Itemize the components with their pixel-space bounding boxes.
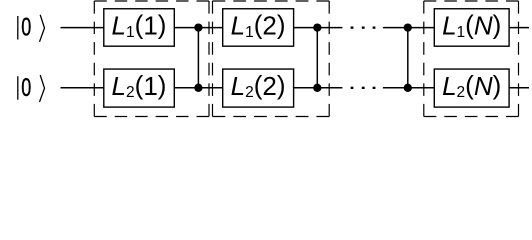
svg-text:L1(2): L1(2) (231, 10, 286, 41)
gate box L2(N) (434, 69, 509, 107)
control dot on qubit 1 after layer 2 (313, 23, 321, 31)
svg-text:L1(1): L1(1) (112, 10, 167, 41)
ellipsis dots qubit 2 (351, 87, 376, 89)
svg-text:0: 0 (21, 73, 31, 102)
svg-text:0: 0 (21, 13, 31, 42)
wire qubit 1 segments (61, 27, 530, 29)
control dot on qubit 2 after layer 2 (313, 84, 321, 92)
control dot on qubit 1 before layer N (404, 23, 412, 31)
ellipsis dots qubit 1 (351, 27, 376, 29)
control dot on qubit 2 before layer N (404, 84, 412, 92)
gate box L1(2) (223, 9, 294, 46)
ket label |0> qubit 1 (18, 13, 45, 42)
gate box L2(1) (104, 69, 175, 107)
gate box L2(2) (223, 69, 294, 107)
ket label |0> qubit 2 (18, 73, 45, 102)
control dot on qubit 1 after layer 1 (194, 23, 202, 31)
gate box L1(1) (104, 9, 175, 46)
control dot on qubit 2 after layer 1 (194, 84, 202, 92)
wire qubit 2 segments (61, 87, 530, 89)
dashed group box layer 2 (213, 1, 330, 117)
vertical connector wire after layer 2 (316, 28, 318, 88)
dashed group box layer 1 (94, 1, 209, 117)
vertical connector wire after layer 1 (197, 28, 199, 88)
dashed group box layer N (424, 1, 519, 117)
gate box L1(N) (434, 9, 509, 46)
svg-text:L2(2): L2(2) (231, 70, 286, 101)
svg-text:L2(N): L2(N) (442, 70, 501, 101)
svg-text:L1(N): L1(N) (442, 10, 501, 41)
vertical connector wire before layer N (407, 28, 409, 88)
svg-text:L2(1): L2(1) (112, 70, 167, 101)
